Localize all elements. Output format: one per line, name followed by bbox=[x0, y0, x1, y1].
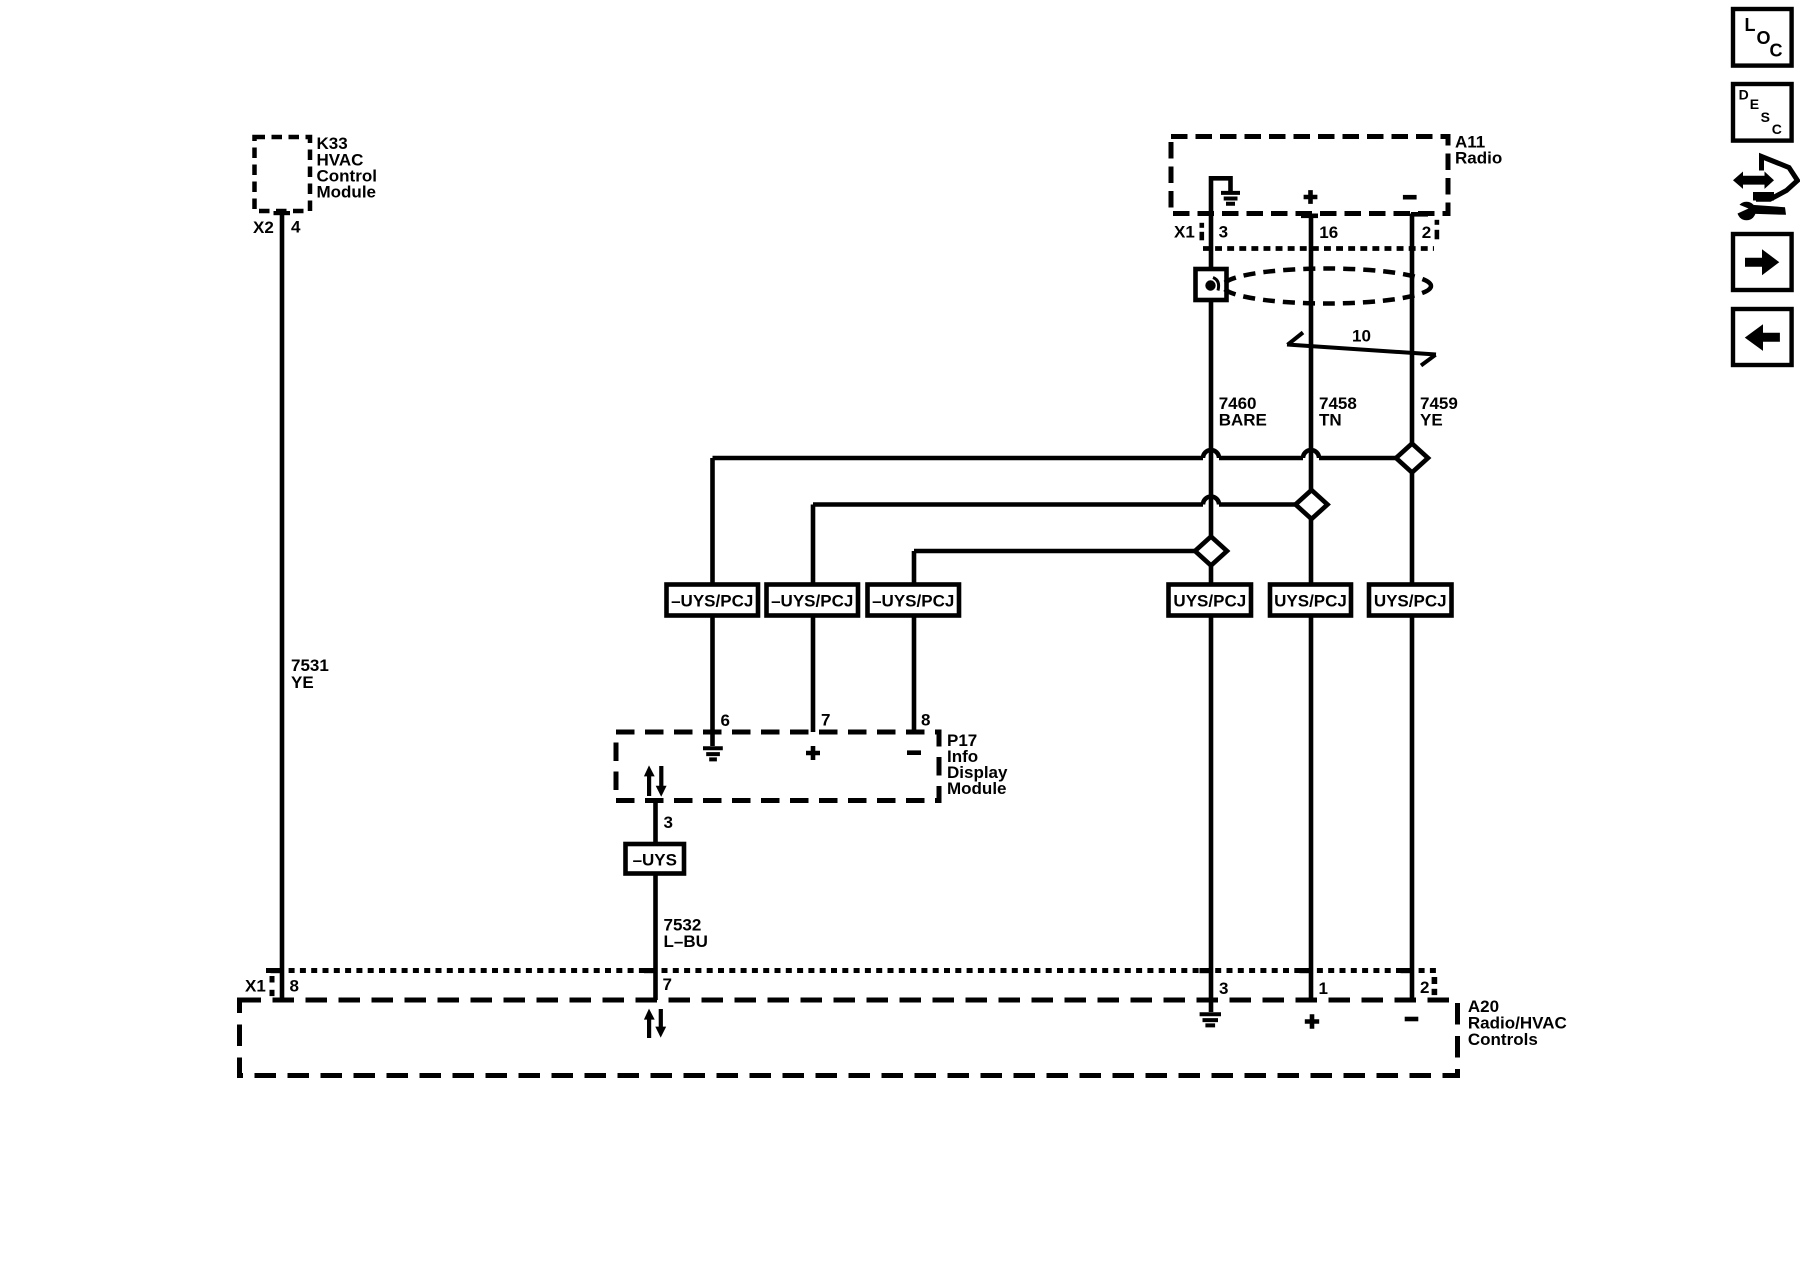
plus terminal inside A20 at pin 1 bbox=[1305, 1014, 1319, 1028]
component A11 Radio (dashed box) bbox=[1171, 132, 1502, 213]
svg-text:O: O bbox=[1757, 28, 1771, 48]
pin tick at A20 X1-1 bbox=[1300, 968, 1312, 973]
minus terminal inside P17 at pin 8 bbox=[907, 750, 921, 755]
svg-text:–UYS/PCJ: –UYS/PCJ bbox=[872, 591, 954, 610]
ground symbol inside A11 radio bbox=[1211, 178, 1240, 204]
data arrows (up/down) inside P17 bbox=[644, 765, 667, 796]
wire 7458 TN from A11 X1-16 to A20 X1-1 bbox=[1311, 214, 1357, 1001]
plus terminal inside A11 radio bbox=[1304, 190, 1318, 204]
svg-text:8: 8 bbox=[921, 711, 930, 730]
svg-text:L–BU: L–BU bbox=[664, 932, 708, 951]
splice diamond on wire 7458 at run 2 bbox=[1296, 490, 1328, 519]
svg-text:2: 2 bbox=[1422, 223, 1431, 242]
wire code label box -UYS/PCJ (left 2) bbox=[767, 585, 859, 616]
svg-text:UYS/PCJ: UYS/PCJ bbox=[1374, 591, 1447, 610]
svg-text:X1: X1 bbox=[245, 977, 266, 996]
svg-text:Module: Module bbox=[947, 779, 1007, 798]
svg-text:7: 7 bbox=[821, 711, 830, 730]
svg-text:–UYS/PCJ: –UYS/PCJ bbox=[771, 591, 853, 610]
splice diamond on wire 7459 at run 1 bbox=[1396, 444, 1428, 473]
wire 7532 L-BU from P17 pin 3 to A20 X1-7 bbox=[656, 801, 708, 1001]
wire hop over 7460 on run 1 bbox=[1203, 450, 1219, 458]
pin tick at A20 X1-7 bbox=[644, 968, 656, 973]
connector X1 of A20 (dotted row) bbox=[245, 971, 1437, 997]
pin tick at A20 X1-8 bbox=[271, 968, 283, 973]
svg-text:7: 7 bbox=[663, 975, 672, 994]
svg-text:8: 8 bbox=[290, 977, 299, 996]
svg-text:E: E bbox=[1750, 96, 1759, 112]
svg-text:1: 1 bbox=[1319, 979, 1328, 998]
component K33 HVAC Control Module (dashed box) bbox=[255, 134, 377, 211]
svg-text:S: S bbox=[1761, 109, 1770, 125]
svg-text:6: 6 bbox=[721, 711, 730, 730]
wire horizontal run 2 (y504.5) from P17 pin7 drop to splice on 7458 bbox=[813, 502, 1312, 507]
icon back arrow bbox=[1733, 309, 1792, 365]
svg-text:Controls: Controls bbox=[1468, 1030, 1538, 1049]
component P17 Info Display Module (dashed box) bbox=[616, 731, 1008, 801]
svg-text:X2: X2 bbox=[253, 218, 274, 237]
pin tick at A20 X1-3 bbox=[1200, 968, 1212, 973]
wire vertical drop to P17 pin 6 bbox=[710, 458, 715, 746]
connector X2 pin 4 of K33 bbox=[253, 211, 301, 237]
svg-text:16: 16 bbox=[1319, 223, 1338, 242]
ground symbol inside P17 at pin 6 bbox=[703, 748, 723, 759]
svg-text:YE: YE bbox=[291, 673, 314, 692]
in-line connector square with splice dot on wire 7460 bbox=[1196, 269, 1227, 300]
svg-text:UYS/PCJ: UYS/PCJ bbox=[1173, 591, 1246, 610]
dashed ellipse harness grouping around wires bbox=[1223, 269, 1431, 304]
pin tick at A20 X1-2 bbox=[1401, 968, 1413, 973]
svg-text:L: L bbox=[1745, 15, 1756, 35]
wire hop over 7460 on run 2 bbox=[1203, 497, 1219, 505]
component A20 Radio/HVAC Controls (dashed box) bbox=[240, 997, 1567, 1076]
wire horizontal run 3 (y551) from P17 pin8 drop to splice on 7460 bbox=[914, 549, 1211, 554]
wire code label box UYS/PCJ (on 7460) bbox=[1169, 585, 1252, 616]
wire code label box UYS/PCJ (on 7459) bbox=[1369, 585, 1452, 616]
svg-text:7531: 7531 bbox=[291, 656, 329, 675]
pin tick radio pin 2 bbox=[1411, 212, 1428, 217]
plus terminal inside P17 at pin 7 bbox=[806, 746, 820, 760]
splice diamond on wire 7460 at run 3 bbox=[1195, 537, 1227, 566]
svg-text:D: D bbox=[1739, 86, 1749, 102]
svg-text:10: 10 bbox=[1352, 327, 1371, 346]
data arrows (up/down) inside A20 at pin 7 bbox=[644, 1009, 666, 1038]
icon swap arrows with wrench bbox=[1731, 157, 1798, 221]
wire 7460 BARE from A11 X1-3 to A20 X1-3 bbox=[1211, 176, 1267, 1000]
icon DESC bbox=[1733, 84, 1792, 141]
wire horizontal run 1 (y458) from P17 pin6 drop to splice on 7459 bbox=[713, 456, 1413, 461]
icon forward arrow bbox=[1733, 234, 1792, 290]
svg-text:Radio: Radio bbox=[1455, 148, 1502, 167]
wire hop over 7458 on run 1 bbox=[1303, 450, 1319, 458]
svg-text:3: 3 bbox=[1219, 979, 1228, 998]
svg-text:C: C bbox=[1772, 121, 1782, 137]
connector X1 of A11 radio (dotted row, pins 3,16,2) bbox=[1174, 220, 1439, 249]
icon LOC (top right) bbox=[1733, 9, 1792, 66]
pin tick radio pin 16 bbox=[1301, 214, 1318, 219]
wire code label box -UYS (on 7532) bbox=[626, 844, 685, 874]
svg-text:BARE: BARE bbox=[1219, 410, 1267, 429]
wire 7531 YE from K33 X2-4 to A20 X1-8 bbox=[282, 211, 329, 1000]
svg-text:X1: X1 bbox=[1174, 223, 1195, 242]
svg-text:3: 3 bbox=[664, 813, 673, 832]
svg-text:YE: YE bbox=[1420, 410, 1443, 429]
svg-text:2: 2 bbox=[1420, 978, 1429, 997]
wire code label box -UYS/PCJ (left 3) bbox=[868, 585, 960, 616]
harness annotation line with label 10 bbox=[1287, 327, 1436, 366]
ground symbol inside A20 at pin 3 bbox=[1200, 1000, 1221, 1025]
svg-text:TN: TN bbox=[1319, 410, 1342, 429]
svg-text:4: 4 bbox=[291, 218, 301, 237]
svg-text:3: 3 bbox=[1219, 223, 1228, 242]
wire vertical drop to P17 pin 8 bbox=[912, 551, 917, 732]
svg-text:C: C bbox=[1770, 40, 1783, 60]
wire vertical drop to P17 pin 7 bbox=[811, 505, 816, 733]
svg-text:–UYS/PCJ: –UYS/PCJ bbox=[671, 591, 753, 610]
svg-text:UYS/PCJ: UYS/PCJ bbox=[1274, 591, 1347, 610]
minus terminal inside A20 at pin 2 bbox=[1405, 1017, 1419, 1022]
svg-text:–UYS: –UYS bbox=[633, 850, 677, 869]
wire 7459 YE from A11 X1-2 to A20 X1-2 bbox=[1412, 214, 1458, 1001]
svg-text:Module: Module bbox=[317, 182, 377, 201]
wire code label box -UYS/PCJ (left 1) bbox=[667, 585, 759, 616]
minus terminal inside A11 radio bbox=[1403, 195, 1417, 200]
wire code label box UYS/PCJ (on 7458) bbox=[1270, 585, 1351, 616]
